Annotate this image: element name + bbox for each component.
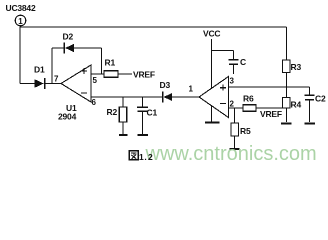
- svg-text:VREF: VREF: [260, 109, 282, 119]
- figure label 图 glyph: [129, 151, 138, 160]
- wire C2 top lead: [309, 87, 311, 95]
- wire R3 bottom lead: [285, 73, 287, 88]
- wire R5 bottom lead: [234, 136, 236, 148]
- resistor R3: [283, 60, 290, 73]
- svg-text:D2: D2: [63, 32, 74, 42]
- wire R6 to R4 junction VREF net: [256, 107, 286, 109]
- wire D2 to loop right corner: [74, 47, 102, 49]
- svg-text:6: 6: [92, 98, 97, 107]
- op-amp U1 plus input mark: [81, 68, 87, 74]
- svg-text:1: 1: [18, 17, 23, 26]
- op-amp U2 plus input mark: [220, 85, 226, 91]
- wire right rail down to R3: [285, 27, 287, 60]
- op-amp U1 minus input mark: [81, 92, 87, 94]
- wire feedback loop top to D2: [52, 47, 64, 49]
- svg-text:5: 5: [93, 76, 98, 85]
- diode D2: [64, 43, 74, 54]
- op-amp U2: [199, 77, 229, 118]
- wire pin5 to R1: [91, 73, 104, 75]
- resistor R6: [243, 105, 256, 112]
- wire C2 bottom lead: [309, 100, 311, 122]
- svg-text:R2: R2: [107, 107, 118, 117]
- svg-text:3: 3: [230, 77, 235, 86]
- wire op-amp 2 ground lead: [211, 106, 213, 122]
- svg-text:2: 2: [230, 100, 235, 109]
- wire output pin7 to D1: [20, 83, 35, 85]
- svg-text:1: 1: [139, 152, 144, 162]
- wire VCC lead down to op-amp 2: [211, 39, 213, 89]
- svg-text:C1: C1: [147, 108, 158, 118]
- svg-text:VREF: VREF: [133, 70, 155, 80]
- pin 1 terminal circle: [15, 15, 26, 26]
- svg-text:R6: R6: [243, 94, 254, 104]
- svg-text:C: C: [240, 57, 246, 67]
- svg-text:D3: D3: [160, 80, 171, 90]
- svg-text:UC3842: UC3842: [6, 3, 36, 13]
- wire VCC branch to capacitor C: [212, 50, 234, 52]
- svg-text:VCC: VCC: [203, 29, 220, 39]
- wire R4 top lead: [285, 87, 287, 98]
- op-amp U1: [61, 65, 91, 102]
- capacitor C2: [305, 95, 315, 100]
- ground below op-amp U2: [205, 122, 220, 124]
- wire feedback loop right vertical: [101, 48, 103, 74]
- diode D3: [163, 92, 173, 103]
- wire C1 bottom lead: [142, 112, 144, 135]
- svg-text:7: 7: [54, 75, 59, 84]
- capacitor C1: [137, 107, 148, 111]
- svg-text:2: 2: [148, 152, 153, 162]
- ground below R5: [230, 148, 240, 150]
- ground below C2: [305, 123, 316, 125]
- resistor R2: [119, 107, 126, 122]
- resistor R4: [283, 98, 290, 109]
- svg-text:R1: R1: [105, 58, 116, 68]
- wire left rail: [19, 26, 21, 84]
- svg-text:D1: D1: [34, 65, 45, 75]
- capacitor C: [229, 60, 239, 64]
- wire R2 lead down: [122, 97, 124, 107]
- wire top rail: [20, 26, 286, 28]
- wire capacitor C bottom lead: [233, 65, 235, 75]
- wire pin3 node horizontal: [229, 86, 310, 88]
- svg-text:www.cntronics.com: www.cntronics.com: [145, 143, 317, 165]
- svg-text:R3: R3: [291, 62, 302, 72]
- diode D1: [35, 78, 45, 89]
- wire R2 bottom lead: [122, 122, 124, 135]
- wire C1 top lead: [142, 97, 144, 107]
- wire D3 to op-amp 2 pin1: [172, 96, 199, 98]
- svg-text:2904: 2904: [58, 112, 77, 122]
- svg-text:.: .: [144, 152, 146, 162]
- wire R1 to VREF: [118, 73, 132, 75]
- wire capacitor C top lead: [233, 51, 235, 60]
- wire feedback loop left vertical: [51, 48, 53, 84]
- resistor R5: [231, 123, 238, 136]
- wire pin6 horizontal to D3: [91, 96, 162, 98]
- svg-text:C2: C2: [315, 94, 326, 104]
- ground below C1: [138, 134, 149, 136]
- wire R5 top lead: [234, 108, 236, 123]
- resistor R1: [104, 71, 118, 78]
- svg-text:R5: R5: [240, 126, 251, 136]
- svg-text:R4: R4: [291, 100, 302, 110]
- wire D1 to op-amp U1 apex: [46, 83, 62, 85]
- ground below R4: [281, 123, 292, 125]
- ground below R2: [119, 134, 128, 136]
- wire R4 bottom lead to ground: [285, 108, 287, 122]
- op-amp U2 minus input mark: [220, 102, 226, 104]
- svg-text:1: 1: [189, 85, 194, 94]
- wire pin2 to R6: [229, 107, 244, 109]
